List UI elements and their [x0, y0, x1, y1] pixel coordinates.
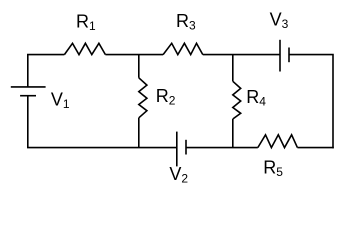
wire bottom-left: V2 long plate to V1 negative lead	[28, 96, 177, 149]
svg-text:V2: V2	[169, 164, 188, 186]
svg-text:V3: V3	[270, 10, 289, 32]
wire from R5 to V2 short plate through R4 junction	[186, 147, 258, 149]
battery V2 long plate	[176, 132, 178, 167]
resistor R2	[139, 78, 147, 118]
svg-text:V1: V1	[51, 90, 70, 112]
battery V1 long plate	[11, 86, 46, 88]
wire R2 bottom lead to bottom rail	[138, 118, 140, 148]
svg-text:R3: R3	[176, 11, 196, 33]
battery V3 short plate	[288, 48, 290, 63]
battery V3 long plate	[279, 40, 281, 72]
node A junction to resistor R2 branch (top lead)	[138, 55, 140, 78]
svg-text:R1: R1	[76, 12, 96, 33]
wire from R3 to V3 through node B	[203, 54, 280, 56]
node B junction to resistor R4 branch (top lead)	[232, 55, 234, 82]
resistor R1	[64, 43, 105, 54]
wire from R1 to R3 through node A	[105, 54, 163, 56]
svg-text:R2: R2	[156, 86, 176, 108]
wire R4 bottom lead to bottom rail	[232, 119, 234, 148]
battery V2 short plate	[185, 140, 187, 155]
wire from V3 right and down right side	[289, 55, 333, 149]
resistor R4	[233, 81, 241, 119]
wire bottom-right corner to R5	[297, 147, 333, 149]
resistor R5	[258, 135, 298, 148]
resistor R3	[163, 43, 203, 54]
wire top-left: V1 positive lead up and across to R1	[27, 54, 64, 87]
svg-text:R5: R5	[263, 157, 283, 179]
svg-text:R4: R4	[246, 87, 266, 109]
battery V1 short plate	[20, 95, 36, 97]
